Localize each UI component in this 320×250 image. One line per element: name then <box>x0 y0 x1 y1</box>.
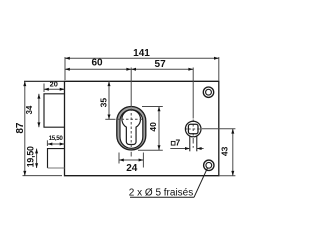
dim 141 extension right <box>218 57 220 81</box>
dim 60 arrow left <box>65 68 70 71</box>
dim 15,50 extension tick <box>46 140 48 146</box>
svg-text:34: 34 <box>25 105 34 114</box>
wire bottom extension line for 87 dim <box>23 175 63 177</box>
dim 40 arrow top <box>158 107 161 112</box>
dim 20 line <box>44 88 65 90</box>
dim 43 extension bottom <box>219 175 236 177</box>
svg-text:43: 43 <box>220 146 230 156</box>
dim 19,50 line <box>36 149 38 168</box>
dim 40 arrow bottom <box>158 145 161 150</box>
lower-left box (15.50x19.50 pocket) <box>48 149 65 168</box>
dim 40 line <box>158 107 160 151</box>
dim 57 arrow left <box>131 68 136 71</box>
centerline vertical through follower upper solid <box>192 68 194 119</box>
euro profile cylinder hole <box>122 110 141 145</box>
dim 43 arrow top <box>231 129 234 134</box>
dim 20 arrow left <box>44 88 49 91</box>
dim 141 line <box>65 57 219 59</box>
centerline dot below slot <box>192 146 194 148</box>
dim 60 line <box>65 68 131 70</box>
dim 20 arrow right <box>60 88 65 91</box>
upper-left box (20x34 pocket) <box>44 94 65 127</box>
dim 19,50 arrow top <box>35 149 38 154</box>
dim 34 arrow top <box>37 94 40 99</box>
dim 40 extension top <box>142 106 163 108</box>
countersunk hole top outer <box>203 87 213 97</box>
centerline horizontal follower left tick <box>185 128 187 130</box>
dim 34 line <box>38 94 40 127</box>
dim 35 arrow bottom <box>108 115 111 120</box>
svg-text:20: 20 <box>50 80 58 89</box>
leader line to countersunk hole <box>194 168 208 197</box>
dim 24 arrow left <box>119 159 124 162</box>
follower slot right line <box>196 136 198 151</box>
dim 15,50 arrow right <box>60 143 65 146</box>
centerline dash in slot <box>192 138 194 144</box>
svg-text:15,50: 15,50 <box>49 135 64 142</box>
dim 19,50 arrow bottom <box>35 163 38 168</box>
centerline vertical through follower dotted <box>192 120 194 136</box>
svg-text:7: 7 <box>176 138 181 148</box>
dim 87 line <box>24 81 26 175</box>
centerline horizontal through cylinder circle dotted <box>117 118 144 120</box>
oval escutcheon inner <box>120 110 143 149</box>
dim 35 line <box>108 81 110 119</box>
dim 43 arrow bottom <box>231 171 234 176</box>
dim 24 extension tick right <box>142 153 144 168</box>
svg-text:141: 141 <box>133 48 150 59</box>
centerline vertical through oval cylinder dotted <box>130 109 132 151</box>
dim 87 arrow top <box>23 81 26 86</box>
dim 7 arrow left <box>185 147 190 150</box>
oval escutcheon outer <box>117 107 146 151</box>
dim 43 line <box>232 129 234 176</box>
svg-text:19,50: 19,50 <box>25 146 35 167</box>
dim 7 line left <box>170 148 190 150</box>
centerline vertical through oval cylinder upper solid <box>130 68 132 108</box>
svg-text:40: 40 <box>148 122 158 132</box>
svg-text:57: 57 <box>155 59 167 70</box>
dim 87 arrow bottom <box>23 171 26 176</box>
dim 141 arrow right <box>214 57 219 60</box>
dim 141 arrow left <box>65 57 70 60</box>
dim 7 line right <box>197 148 204 150</box>
centerline horizontal through follower dotted <box>188 128 200 130</box>
dim 35 extension bottom <box>105 118 115 120</box>
follower circle <box>185 121 201 137</box>
countersunk hole top inner <box>206 89 212 95</box>
dim 141 extension left <box>64 57 66 80</box>
dim 35 arrow top <box>108 81 111 86</box>
dim 20 extension tick <box>43 84 45 93</box>
dim 57 arrow right <box>188 68 193 71</box>
dim square-7 glyph <box>171 141 175 145</box>
follower square 7mm <box>188 124 198 134</box>
dim 24 extension tick left <box>118 153 120 164</box>
follower slot left line <box>189 136 191 151</box>
wire top extension line for 87 dim <box>24 80 65 82</box>
dim 57 line <box>131 68 193 70</box>
dim 24 line <box>119 159 143 161</box>
dim 15,50 arrow left <box>48 143 53 146</box>
countersunk hole bottom inner <box>206 162 212 168</box>
lower-left box bottom edge (gray) <box>48 167 65 169</box>
dim 34 arrow bottom <box>37 122 40 127</box>
centerline vertical below oval <box>130 152 132 157</box>
dim 60 arrow right <box>126 68 131 71</box>
dim 43 extension top <box>202 128 235 130</box>
svg-text:60: 60 <box>91 57 103 68</box>
svg-text:87: 87 <box>15 122 26 134</box>
note underline <box>130 196 194 198</box>
lock case outline <box>65 81 219 175</box>
svg-text:35: 35 <box>98 98 108 108</box>
countersunk hole bottom outer <box>204 160 214 170</box>
dim 24 arrow right <box>139 159 144 162</box>
svg-text:24: 24 <box>126 163 138 174</box>
dim 15,50 line <box>48 143 65 145</box>
dim 40 extension bottom <box>138 149 163 151</box>
dim 7 arrow right <box>197 147 202 150</box>
